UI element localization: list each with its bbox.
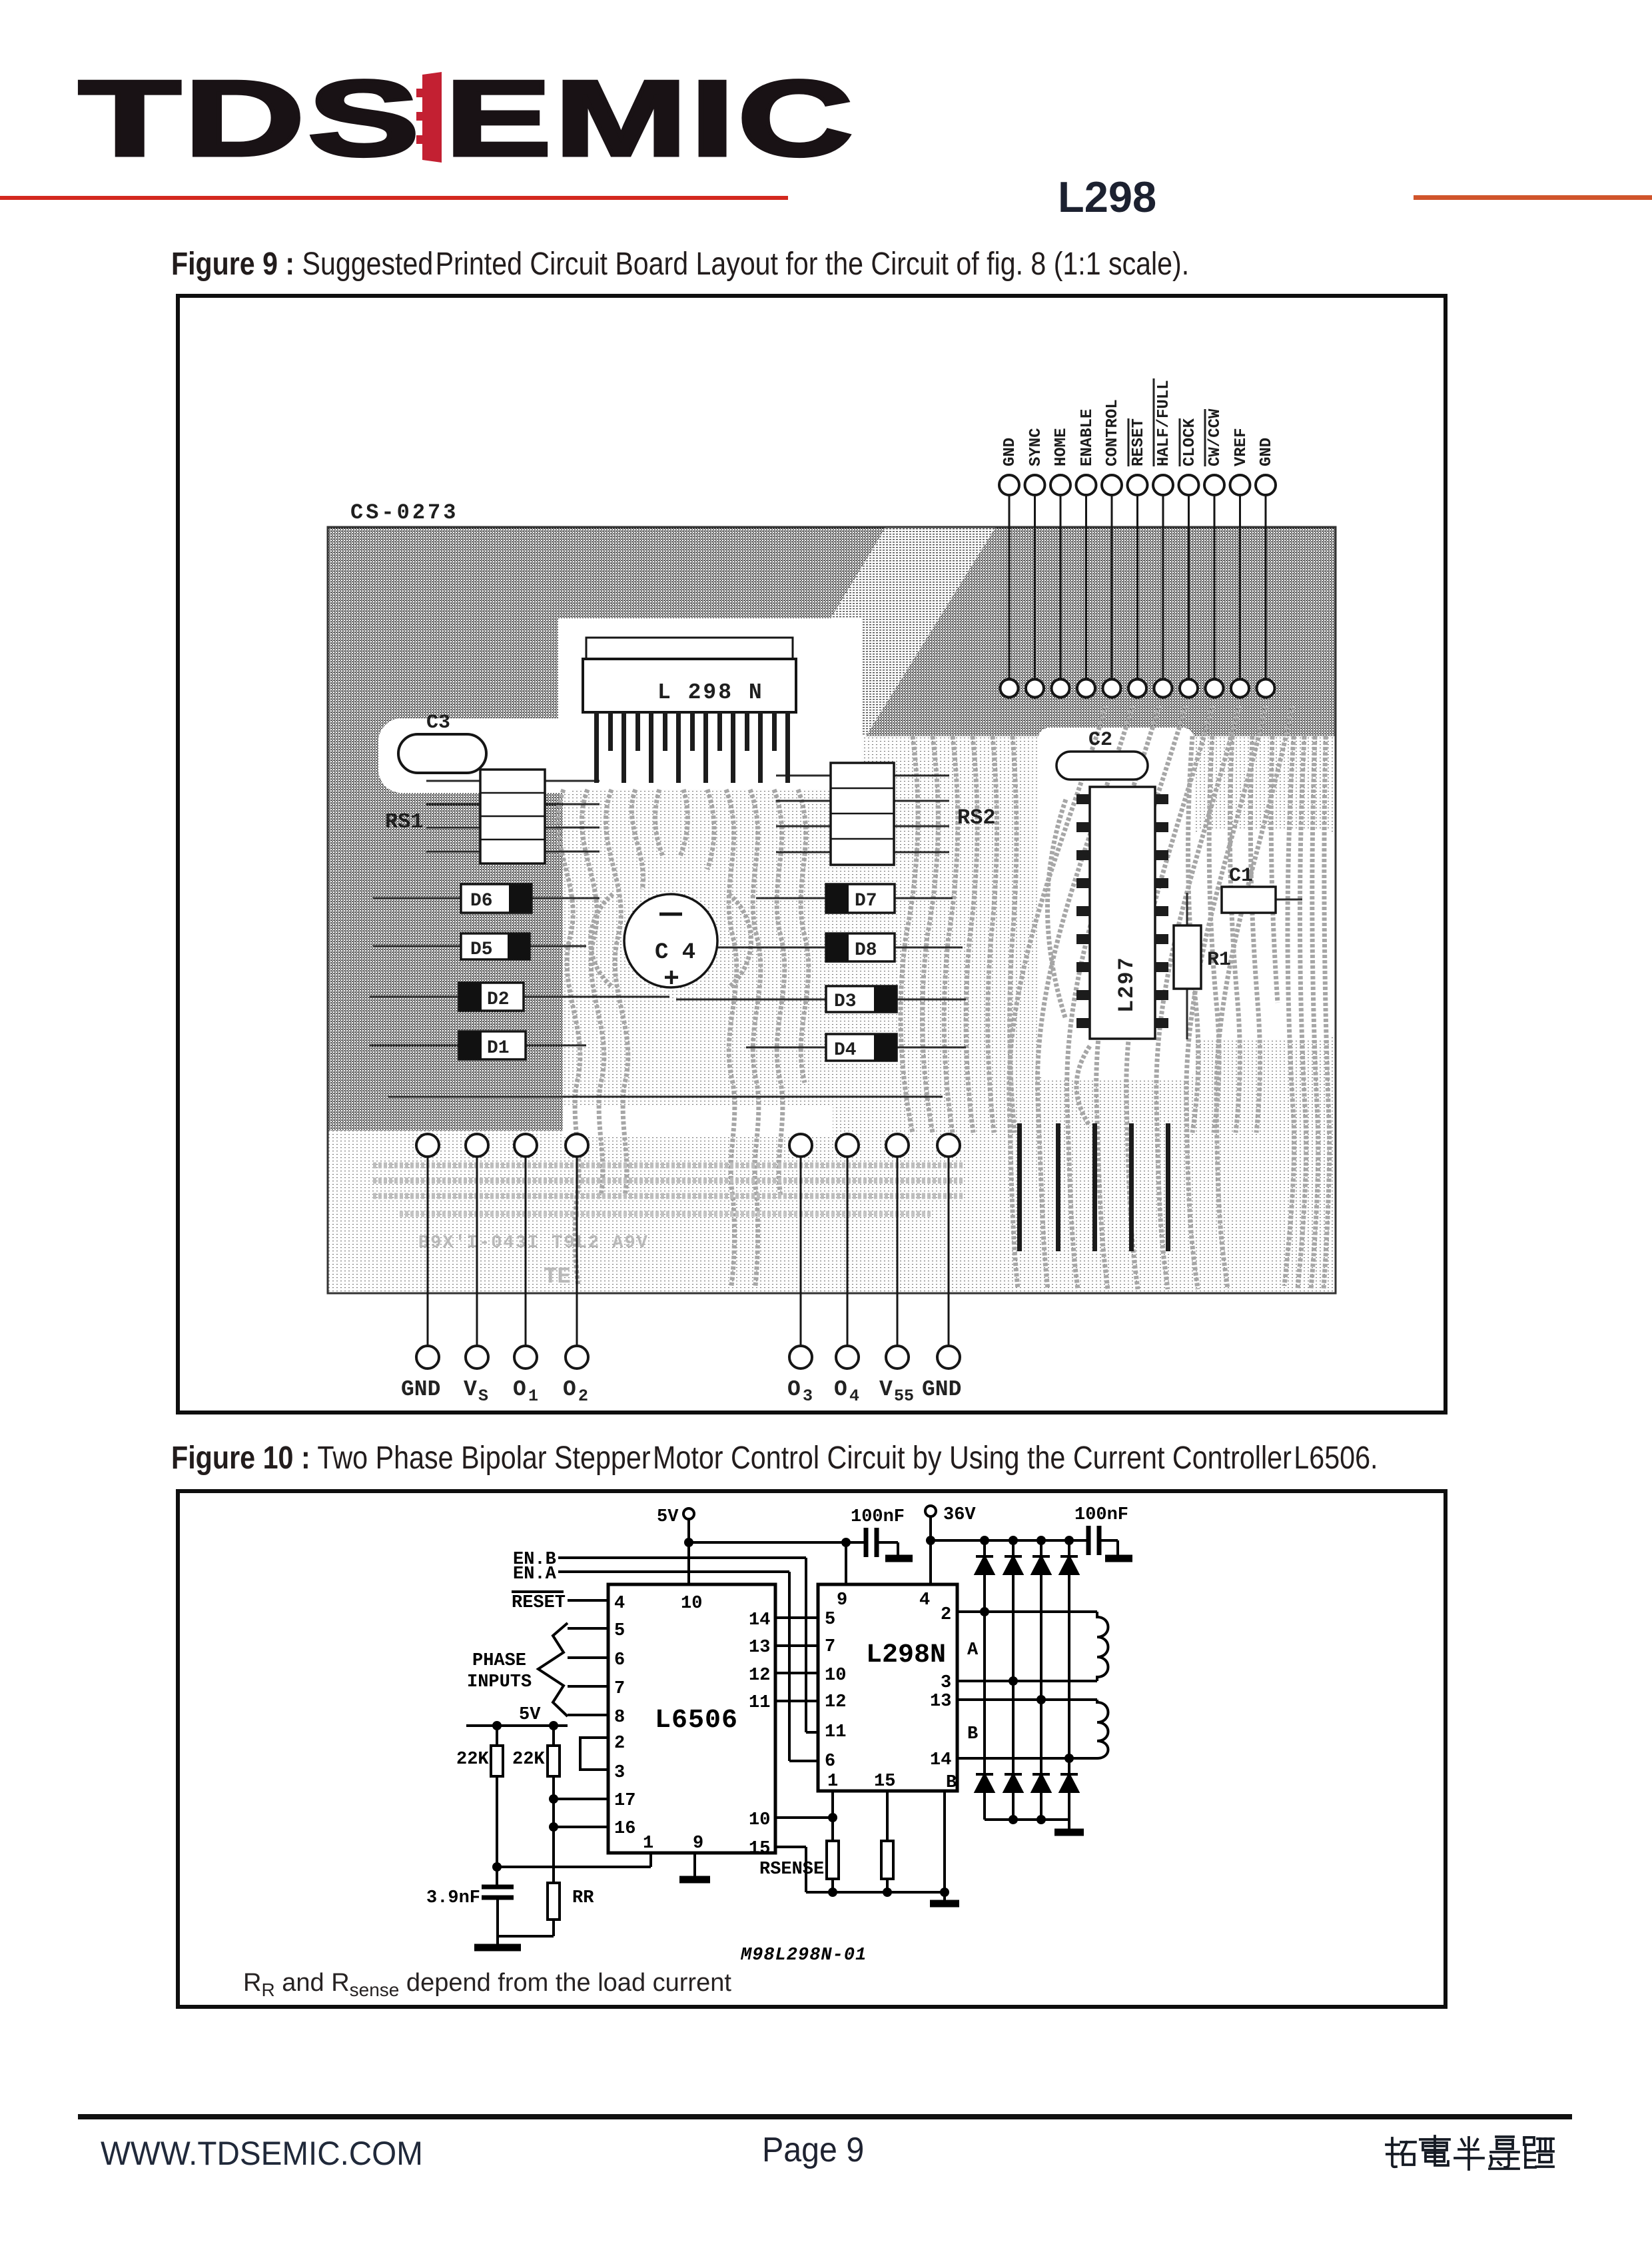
svg-text:L297: L297	[1114, 956, 1139, 1013]
svg-text:7: 7	[614, 1679, 625, 1699]
svg-text:3.9nF: 3.9nF	[426, 1888, 480, 1908]
svg-text:2: 2	[941, 1605, 951, 1625]
svg-text:GND: GND	[1258, 438, 1276, 466]
svg-text:D2: D2	[487, 989, 510, 1010]
svg-text:C1: C1	[1229, 865, 1253, 887]
svg-text:C 4: C 4	[655, 940, 695, 965]
svg-text:14: 14	[930, 1750, 951, 1770]
svg-text:RSENSE: RSENSE	[759, 1860, 824, 1880]
svg-text:3: 3	[803, 1387, 813, 1406]
svg-text:HOME: HOME	[1052, 428, 1070, 466]
svg-text:O: O	[834, 1377, 847, 1402]
svg-text:10: 10	[749, 1810, 770, 1830]
svg-text:2: 2	[614, 1734, 625, 1754]
svg-text:3: 3	[614, 1763, 625, 1783]
svg-text:L 298 N: L 298 N	[657, 680, 764, 705]
svg-text:13: 13	[930, 1692, 951, 1712]
svg-text:4: 4	[849, 1387, 859, 1406]
svg-text:6: 6	[825, 1752, 835, 1772]
svg-text:13: 13	[749, 1638, 770, 1658]
svg-text:5V: 5V	[657, 1507, 679, 1527]
svg-text:17: 17	[614, 1791, 635, 1811]
svg-text:RS2: RS2	[957, 806, 996, 830]
svg-text:INPUTS: INPUTS	[467, 1672, 532, 1692]
svg-text:6: 6	[614, 1650, 625, 1670]
svg-text:O: O	[513, 1377, 526, 1402]
svg-text:EN.A: EN.A	[513, 1564, 557, 1584]
svg-text:V: V	[879, 1377, 893, 1402]
svg-text:12: 12	[749, 1666, 770, 1686]
svg-text:14: 14	[749, 1610, 770, 1630]
svg-text:M98L298N-01: M98L298N-01	[740, 1946, 867, 1966]
svg-text:D7: D7	[855, 891, 877, 911]
svg-text:V: V	[464, 1377, 477, 1402]
svg-text:GND: GND	[401, 1377, 440, 1402]
svg-text:10: 10	[681, 1594, 702, 1614]
svg-text:D1: D1	[487, 1038, 510, 1059]
svg-text:11: 11	[825, 1722, 846, 1742]
svg-text:PHASE: PHASE	[472, 1651, 526, 1671]
svg-text:10: 10	[825, 1666, 846, 1686]
svg-text:C3: C3	[426, 712, 450, 734]
svg-text:1: 1	[643, 1834, 653, 1854]
svg-text:HALF/FULL: HALF/FULL	[1155, 380, 1173, 466]
svg-text:D4: D4	[834, 1040, 857, 1061]
svg-text:CW/CCW: CW/CCW	[1206, 408, 1224, 466]
svg-text:TE: TE	[544, 1265, 571, 1290]
svg-text:O: O	[563, 1377, 576, 1402]
svg-text:9: 9	[837, 1590, 847, 1610]
svg-text:RESET: RESET	[512, 1593, 566, 1613]
svg-text:B: B	[946, 1773, 957, 1793]
svg-text:L6506: L6506	[655, 1706, 738, 1736]
svg-text:VREF: VREF	[1232, 428, 1250, 466]
svg-text:4: 4	[919, 1590, 930, 1610]
svg-text:O: O	[787, 1377, 801, 1402]
svg-text:SYNC: SYNC	[1027, 428, 1045, 466]
svg-text:B: B	[967, 1724, 978, 1744]
svg-text:55: 55	[894, 1387, 914, 1406]
svg-text:L298N: L298N	[866, 1640, 946, 1670]
svg-text:CONTROL: CONTROL	[1104, 399, 1122, 466]
svg-text:C2: C2	[1088, 729, 1112, 752]
svg-text:8: 8	[614, 1708, 625, 1728]
svg-text:GND: GND	[1001, 438, 1019, 466]
svg-text:RESET: RESET	[1130, 418, 1148, 466]
svg-text:+: +	[663, 965, 679, 995]
svg-text:4: 4	[614, 1594, 625, 1614]
svg-text:2: 2	[578, 1387, 588, 1406]
svg-text:16: 16	[614, 1819, 635, 1839]
svg-text:100nF: 100nF	[1074, 1505, 1128, 1525]
svg-text:22K: 22K	[512, 1750, 545, 1770]
svg-text:100nF: 100nF	[851, 1507, 905, 1527]
svg-text:RS1: RS1	[385, 810, 424, 834]
svg-text:A: A	[967, 1640, 979, 1660]
svg-text:15: 15	[749, 1839, 770, 1859]
svg-text:S: S	[478, 1387, 488, 1406]
svg-text:15: 15	[874, 1772, 895, 1792]
svg-text:11: 11	[749, 1693, 770, 1713]
svg-text:36V: 36V	[943, 1505, 976, 1525]
svg-text:12: 12	[825, 1692, 846, 1712]
svg-text:R1: R1	[1207, 949, 1231, 971]
svg-text:1: 1	[827, 1772, 838, 1792]
svg-text:1: 1	[528, 1387, 538, 1406]
svg-text:CLOCK: CLOCK	[1181, 418, 1199, 466]
svg-text:RR: RR	[572, 1888, 594, 1908]
svg-text:D6: D6	[470, 891, 493, 911]
svg-text:D3: D3	[834, 991, 857, 1012]
svg-text:5: 5	[825, 1610, 835, 1630]
svg-text:9: 9	[693, 1834, 703, 1854]
svg-text:5V: 5V	[519, 1705, 541, 1725]
svg-text:5: 5	[614, 1621, 625, 1641]
svg-text:ENABLE: ENABLE	[1078, 409, 1096, 466]
svg-text:D8: D8	[855, 940, 877, 961]
svg-text:D5: D5	[470, 939, 493, 960]
svg-text:22K: 22K	[456, 1750, 489, 1770]
svg-text:7: 7	[825, 1637, 835, 1657]
svg-text:CS-0273: CS-0273	[350, 500, 458, 525]
svg-text:B9X'I-043I T9L2 A9V: B9X'I-043I T9L2 A9V	[418, 1233, 649, 1253]
svg-text:GND: GND	[922, 1377, 961, 1402]
svg-text:3: 3	[941, 1673, 951, 1693]
